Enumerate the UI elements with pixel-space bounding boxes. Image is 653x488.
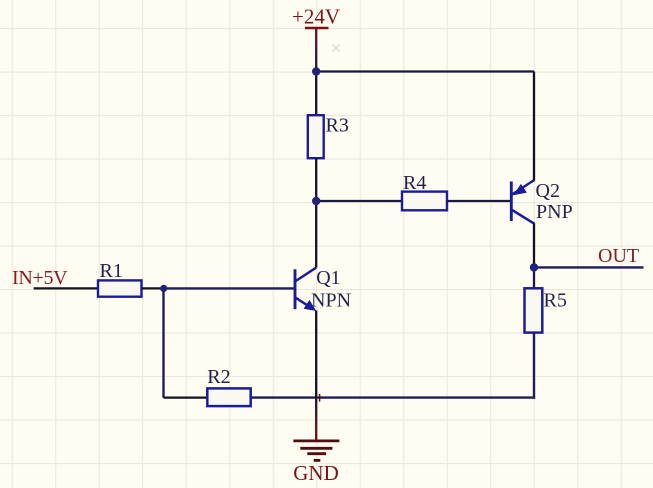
Q1 collector diagonal (295, 268, 316, 282)
wire bottom rail far right (316, 396, 535, 398)
wire Q1 emitter down to gnd (315, 311, 317, 399)
wire junction to R5 (533, 267, 535, 288)
Q1 base bar (294, 269, 297, 309)
resistor R1 (98, 280, 142, 296)
node junction OUT (530, 263, 538, 271)
svg-text:PNP: PNP (536, 201, 573, 223)
wire Q1 collector up (315, 201, 317, 268)
Q2 emitter arrow (PNP, into base) (513, 184, 527, 195)
wire top rail (316, 70, 534, 72)
svg-text:GND: GND (293, 461, 339, 485)
node junction mid (312, 197, 320, 205)
no-ERC cross at bottom rail crossing (317, 394, 324, 402)
svg-text:R2: R2 (207, 366, 230, 388)
svg-text:R4: R4 (403, 172, 426, 194)
svg-text:Q1: Q1 (316, 267, 340, 289)
transistor Q2 (511, 180, 534, 224)
node junction R1 (160, 285, 167, 292)
artifact faint cross (333, 45, 340, 52)
svg-text:R3: R3 (326, 115, 349, 137)
svg-text:OUT: OUT (598, 245, 639, 267)
wire R1 to junction (142, 287, 164, 289)
wire R5 bottom down (533, 333, 535, 399)
svg-text:IN+5V: IN+5V (12, 267, 68, 289)
power +24V bar symbol (305, 27, 329, 30)
wire bottom rail right (251, 396, 317, 398)
wire gnd stem (315, 398, 317, 440)
wire Q2 collector down (533, 223, 535, 267)
wire input lead (34, 287, 98, 289)
node junction top (312, 67, 320, 75)
resistor R4 (402, 192, 447, 211)
transistor Q1 (295, 268, 316, 311)
wire left branch down (162, 288, 164, 397)
svg-text:R5: R5 (544, 290, 567, 312)
svg-text:+24V: +24V (292, 5, 340, 29)
resistor R5 (525, 288, 543, 332)
Q2 collector diagonal (511, 210, 534, 224)
wire R4 to Q2 base (447, 200, 511, 202)
wire to R2 (164, 396, 208, 398)
svg-text:Q2: Q2 (536, 180, 560, 202)
wire R3 bottom to mid junction (315, 158, 317, 201)
wire center col to R3 (315, 72, 317, 116)
wire +24V stem (315, 28, 317, 72)
Q1 emitter diagonal (295, 297, 312, 308)
resistor R3 (308, 115, 324, 158)
Q2 emitter diagonal (512, 180, 534, 195)
svg-text:R1: R1 (100, 260, 123, 282)
svg-text:NPN: NPN (311, 290, 351, 312)
ground symbol (293, 441, 339, 461)
wire Q2 emitter up (533, 72, 535, 181)
Q2 base bar (510, 182, 513, 222)
wire mid junction to R4 (316, 200, 402, 202)
resistor R2 (207, 388, 250, 406)
Q1 emitter arrow (NPN, outward) (304, 300, 317, 311)
wire junction to Q1 base (164, 287, 295, 289)
wire OUT (534, 266, 644, 268)
